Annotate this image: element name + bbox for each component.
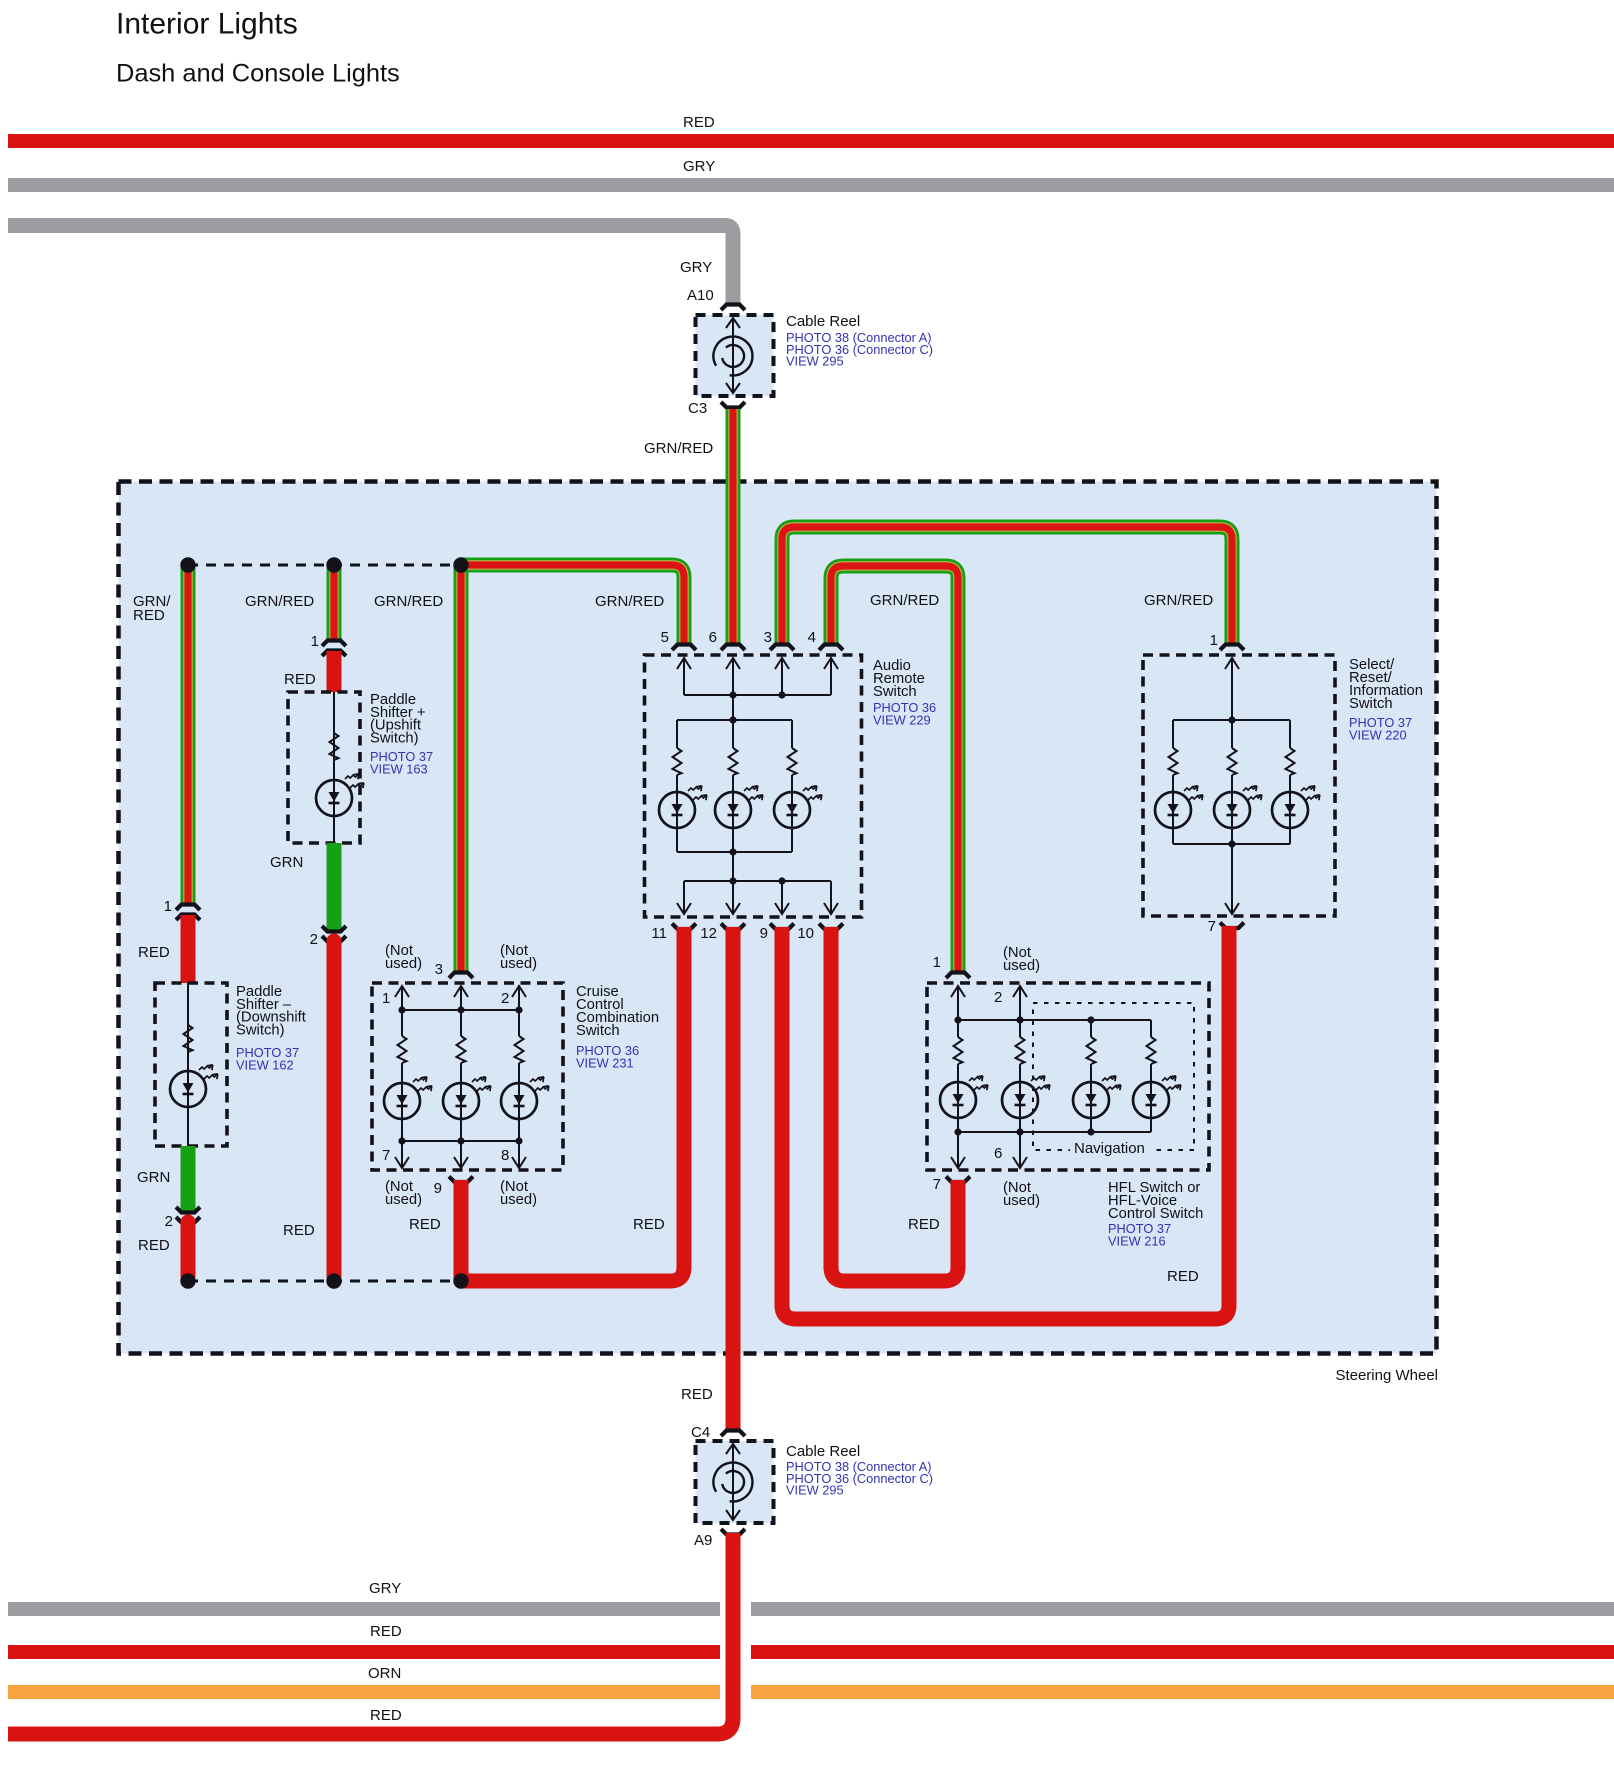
svg-text:VIEW 295: VIEW 295 bbox=[786, 354, 844, 369]
cruise resistor branch 3 bbox=[518, 1010, 520, 1036]
svg-text:RED: RED bbox=[908, 1216, 940, 1233]
audio LED 1 bbox=[676, 792, 678, 828]
node F junction dot bbox=[453, 1273, 468, 1288]
wire RED audio pin 10 to HFL pin 7 bbox=[831, 927, 958, 1281]
svg-text:RED: RED bbox=[683, 114, 715, 131]
svg-text:used): used) bbox=[1003, 958, 1040, 974]
hfl LED 4 bbox=[1150, 1082, 1152, 1118]
hfl top bus line bbox=[958, 1019, 1151, 1021]
svg-text:ORN: ORN bbox=[368, 1665, 401, 1682]
wire GRN/RED from C3 to audio pin 6 bbox=[726, 409, 741, 645]
svg-text:Cable Reel: Cable Reel bbox=[786, 1443, 860, 1460]
cruise resistor branch 2 bbox=[460, 1010, 462, 1036]
svg-text:VIEW 220: VIEW 220 bbox=[1349, 728, 1407, 743]
node link dashed line top bbox=[188, 564, 461, 567]
node E junction dot bbox=[326, 1273, 341, 1288]
svg-text:GRN: GRN bbox=[137, 1169, 170, 1186]
svg-text:10: 10 bbox=[797, 925, 814, 942]
cruise LED 1 bbox=[401, 1083, 403, 1119]
svg-text:A9: A9 bbox=[694, 1532, 712, 1549]
svg-text:GRN/RED: GRN/RED bbox=[644, 440, 713, 457]
paddle shifter - (downshift switch) box bbox=[155, 983, 227, 1146]
wire GRN/RED node C down to cruise pin 3 bbox=[454, 565, 469, 973]
hfl resistor branch 2 bbox=[1019, 1020, 1021, 1037]
paddle shifter + (upshift switch) box bbox=[288, 692, 360, 843]
node B junction dot bbox=[326, 557, 341, 572]
svg-text:GRY: GRY bbox=[680, 259, 712, 276]
svg-text:GRN/RED: GRN/RED bbox=[870, 592, 939, 609]
resistor downshift bbox=[184, 1025, 193, 1052]
audio pin 9 connector bbox=[770, 924, 794, 930]
svg-text:RED: RED bbox=[370, 1707, 402, 1724]
wire RED audio pin 9 to select pin 7 bbox=[782, 926, 1229, 1319]
svg-text:Switch: Switch bbox=[1349, 696, 1393, 712]
cruise resistor branch 1 bbox=[401, 1010, 403, 1036]
select resistor branch 3 bbox=[1289, 720, 1291, 748]
svg-text:2: 2 bbox=[165, 1213, 173, 1230]
hfl bottom bus line bbox=[958, 1131, 1151, 1133]
svg-text:Dash and Console Lights: Dash and Console Lights bbox=[116, 60, 400, 88]
select pin 7 connector bbox=[1220, 923, 1244, 929]
wire GRN/RED node B down to upshift pin 1 bbox=[327, 565, 342, 640]
svg-text:VIEW 231: VIEW 231 bbox=[576, 1056, 634, 1071]
wire RED audio pin 12 to C4 bbox=[726, 927, 741, 1429]
svg-text:2: 2 bbox=[310, 931, 318, 948]
svg-text:1: 1 bbox=[164, 898, 172, 915]
select LED bottom line bbox=[1173, 843, 1290, 845]
svg-text:GRY: GRY bbox=[369, 1580, 401, 1597]
select branch top line bbox=[1173, 719, 1290, 721]
wire RED upshift pin2 to node E bbox=[327, 941, 342, 1276]
select resistor branch 1 bbox=[1172, 720, 1174, 748]
wire RED bottom bus bbox=[8, 1645, 720, 1659]
svg-text:2: 2 bbox=[994, 989, 1002, 1006]
svg-text:9: 9 bbox=[434, 1180, 442, 1197]
svg-text:2: 2 bbox=[501, 990, 509, 1007]
svg-text:used): used) bbox=[500, 1192, 537, 1208]
svg-text:RED: RED bbox=[284, 671, 316, 688]
cruise pin 3 connector bbox=[449, 973, 473, 979]
select LED 1 bbox=[1172, 792, 1174, 828]
svg-text:Control Switch: Control Switch bbox=[1108, 1206, 1203, 1222]
audio branch top line bbox=[677, 719, 792, 721]
svg-text:RED: RED bbox=[138, 944, 170, 961]
audio center return wire bbox=[732, 852, 734, 881]
node link dashed line bottom bbox=[188, 1280, 461, 1283]
select LED 2 bbox=[1231, 792, 1233, 828]
audio center feed wire bbox=[732, 695, 734, 720]
svg-text:GRY: GRY bbox=[683, 158, 715, 175]
steering wheel boundary box bbox=[119, 482, 1437, 1354]
node A junction dot bbox=[180, 557, 195, 572]
svg-text:3: 3 bbox=[435, 961, 443, 978]
wire RED node F to audio pin 11 bbox=[461, 927, 684, 1281]
svg-text:Switch: Switch bbox=[576, 1023, 620, 1039]
svg-text:RED: RED bbox=[1167, 1268, 1199, 1285]
hfl resistor branch 3 bbox=[1090, 1020, 1092, 1037]
svg-text:Switch: Switch bbox=[873, 684, 917, 700]
node D junction dot bbox=[180, 1273, 195, 1288]
audio top arrows bbox=[683, 659, 685, 695]
svg-text:8: 8 bbox=[501, 1147, 509, 1164]
svg-text:GRN/RED: GRN/RED bbox=[595, 593, 664, 610]
select top arrow bbox=[1231, 659, 1233, 720]
svg-text:used): used) bbox=[500, 956, 537, 972]
hfl LED 3 bbox=[1090, 1082, 1092, 1118]
audio resistor branch 2 bbox=[732, 720, 734, 748]
svg-text:Switch): Switch) bbox=[236, 1022, 285, 1038]
svg-text:1: 1 bbox=[933, 954, 941, 971]
audio pin 6 connector bbox=[721, 645, 745, 651]
svg-text:5: 5 bbox=[661, 629, 669, 646]
cruise LED 3 bbox=[518, 1083, 520, 1119]
wire RED downshift pin1 to box bbox=[181, 915, 196, 983]
svg-text:used): used) bbox=[385, 956, 422, 972]
cable reel U2 symbol bbox=[732, 1444, 734, 1520]
svg-text:GRN/RED: GRN/RED bbox=[374, 593, 443, 610]
svg-text:6: 6 bbox=[994, 1145, 1002, 1162]
wire RED top bus bbox=[8, 134, 1614, 148]
audio pin 11 connector bbox=[672, 924, 696, 930]
svg-text:GRN: GRN bbox=[270, 854, 303, 871]
wire GRY branch to cable reel A10 bbox=[8, 226, 733, 306]
cruise top bus line bbox=[402, 1009, 519, 1011]
select switch box bbox=[1143, 655, 1335, 916]
svg-text:Switch): Switch) bbox=[370, 730, 419, 746]
svg-text:4: 4 bbox=[808, 629, 816, 646]
svg-text:RED: RED bbox=[283, 1222, 315, 1239]
wire GRY bottom bus bbox=[8, 1602, 720, 1616]
audio pin 12 connector bbox=[721, 924, 745, 930]
wire RED downshift pin2 to node D bbox=[181, 1222, 196, 1276]
svg-text:1: 1 bbox=[382, 990, 390, 1007]
hfl bottom arrows bbox=[957, 1132, 959, 1167]
audio LED bottom line bbox=[677, 851, 792, 853]
wire GRN upshift below box bbox=[327, 843, 342, 930]
cable reel U1 box bbox=[696, 315, 774, 396]
svg-text:9: 9 bbox=[760, 925, 768, 942]
audio bottom bus line bbox=[684, 880, 831, 882]
svg-text:VIEW 163: VIEW 163 bbox=[370, 762, 428, 777]
svg-text:GRN/RED: GRN/RED bbox=[1144, 592, 1213, 609]
wire RED A9 down to bottom bus bbox=[8, 1533, 733, 1734]
hfl pin 1 connector bbox=[946, 973, 970, 979]
wire GRN/RED node C to audio pin 5 bbox=[461, 565, 684, 645]
svg-text:RED: RED bbox=[370, 1623, 402, 1640]
hfl resistor branch 4 bbox=[1150, 1020, 1152, 1037]
wire GRN/RED audio pin 3 to select pin 1 bbox=[782, 527, 1232, 645]
svg-text:RED: RED bbox=[138, 1237, 170, 1254]
navigation inner box bbox=[1033, 1003, 1194, 1150]
svg-text:VIEW 162: VIEW 162 bbox=[236, 1058, 294, 1073]
wire GRN downshift below box bbox=[181, 1146, 196, 1212]
svg-text:A10: A10 bbox=[687, 287, 714, 304]
audio pin 4 connector bbox=[819, 645, 843, 651]
hfl pin 7 connector bbox=[946, 1177, 970, 1183]
select bottom arrow bbox=[1231, 844, 1233, 913]
wire GRY top bus bbox=[8, 178, 1614, 192]
cruise control combination switch box bbox=[372, 983, 563, 1170]
wire GRN/RED node A down to downshift pin 1 bbox=[181, 565, 196, 904]
resistor upshift bbox=[330, 733, 339, 760]
svg-text:C3: C3 bbox=[688, 400, 707, 417]
svg-text:11: 11 bbox=[651, 925, 667, 942]
cruise bottom arrows bbox=[401, 1141, 403, 1167]
wire GRN/RED audio pin 4 to HFL pin 1 bbox=[831, 566, 958, 973]
audio pin 10 connector bbox=[819, 924, 843, 930]
hfl top arrows bbox=[957, 987, 959, 1020]
svg-text:VIEW 295: VIEW 295 bbox=[786, 1483, 844, 1498]
audio top bus line bbox=[684, 694, 831, 696]
svg-text:Navigation: Navigation bbox=[1074, 1140, 1145, 1157]
cable reel U2 box bbox=[696, 1441, 774, 1523]
downshift internal wire bbox=[187, 983, 189, 1146]
wire RED upshift pin1 to box bbox=[327, 651, 342, 692]
node C junction dot bbox=[453, 557, 468, 572]
hfl switch box bbox=[927, 983, 1209, 1170]
LED upshift bbox=[333, 780, 335, 816]
svg-text:12: 12 bbox=[700, 925, 717, 942]
svg-text:Interior Lights: Interior Lights bbox=[116, 8, 298, 41]
audio LED 3 bbox=[791, 792, 793, 828]
hfl LED 1 bbox=[957, 1082, 959, 1118]
svg-text:3: 3 bbox=[764, 629, 772, 646]
svg-text:VIEW 216: VIEW 216 bbox=[1108, 1234, 1166, 1249]
cruise top arrows bbox=[401, 987, 403, 1010]
hfl LED 2 bbox=[1019, 1082, 1021, 1118]
svg-text:RED: RED bbox=[681, 1386, 713, 1403]
cruise bottom bus line bbox=[402, 1140, 519, 1142]
audio bottom arrows bbox=[683, 881, 685, 913]
svg-text:7: 7 bbox=[933, 1176, 941, 1193]
svg-text:VIEW 229: VIEW 229 bbox=[873, 713, 931, 728]
LED downshift bbox=[187, 1071, 189, 1107]
audio pin 3 connector bbox=[770, 645, 794, 651]
svg-text:used): used) bbox=[385, 1192, 422, 1208]
svg-text:7: 7 bbox=[1208, 918, 1216, 935]
svg-text:GRN/RED: GRN/RED bbox=[245, 593, 314, 610]
select LED 3 bbox=[1289, 792, 1291, 828]
svg-text:RED: RED bbox=[633, 1216, 665, 1233]
svg-text:C4: C4 bbox=[691, 1424, 710, 1441]
audio LED 2 bbox=[732, 792, 734, 828]
audio pin 5 connector bbox=[672, 645, 696, 651]
svg-text:1: 1 bbox=[311, 633, 319, 650]
label navigation bbox=[1070, 1140, 1150, 1156]
svg-text:used): used) bbox=[1003, 1193, 1040, 1209]
svg-text:Cable Reel: Cable Reel bbox=[786, 313, 860, 330]
svg-text:RED: RED bbox=[409, 1216, 441, 1233]
svg-text:6: 6 bbox=[709, 629, 717, 646]
svg-text:RED: RED bbox=[133, 607, 165, 624]
cable reel U1 symbol bbox=[732, 318, 734, 393]
select pin 1 connector bbox=[1220, 645, 1244, 651]
wire ORN bottom bus bbox=[8, 1685, 720, 1699]
cruise pin 9 connector bbox=[449, 1177, 473, 1183]
upshift internal wire bbox=[333, 692, 335, 843]
audio resistor branch 3 bbox=[791, 720, 793, 748]
select resistor branch 2 bbox=[1231, 720, 1233, 748]
wire RED cruise pin 9 to node F bbox=[454, 1180, 469, 1281]
svg-text:1: 1 bbox=[1210, 632, 1218, 649]
svg-text:Steering Wheel: Steering Wheel bbox=[1335, 1367, 1438, 1384]
svg-text:7: 7 bbox=[382, 1147, 390, 1164]
cruise LED 2 bbox=[460, 1083, 462, 1119]
hfl resistor branch 1 bbox=[957, 1020, 959, 1037]
audio resistor branch 1 bbox=[676, 720, 678, 748]
audio remote switch box bbox=[645, 655, 862, 917]
